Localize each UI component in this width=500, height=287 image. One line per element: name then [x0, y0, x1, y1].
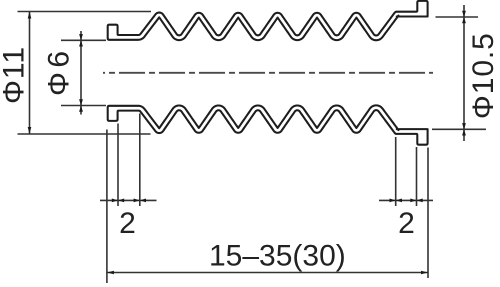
dimension D11 extension top [18, 11, 152, 13]
dimension 2 right extension a [395, 137, 397, 206]
dimension 2 right line [379, 199, 433, 203]
dimension D6 extension bottom [61, 105, 106, 107]
dimension D6 extension top [61, 39, 106, 41]
dimension 2 left extension a [117, 124, 119, 207]
svg-text:Φ11: Φ11 [0, 46, 30, 104]
dimension 2 left extension b [139, 114, 141, 207]
dimension D6 line [79, 31, 83, 115]
dimension D10.5 extension bottom [432, 128, 486, 130]
centerline [103, 72, 433, 74]
dimension D10.5 line [462, 5, 466, 141]
dimension 2 left line [100, 199, 157, 203]
svg-text:15–35(30): 15–35(30) [209, 240, 346, 273]
svg-text:2: 2 [398, 207, 415, 240]
svg-text:2: 2 [119, 207, 136, 240]
dimension 15-35(30) extension left [106, 130, 108, 284]
bellows top wall outline [108, 1, 428, 40]
dimension D11 extension bottom [18, 133, 151, 135]
dimension 15-35(30) line [107, 271, 428, 275]
dimension D11 line [28, 12, 32, 135]
dimension 15-35(30) extension right [427, 148, 429, 279]
bellows bottom wall outline [108, 105, 428, 144]
svg-text:Φ10.5: Φ10.5 [467, 32, 500, 119]
dimension 2 right extension b [416, 147, 418, 206]
dimension D10.5 extension top [436, 16, 479, 18]
svg-text:Φ6: Φ6 [43, 46, 76, 96]
